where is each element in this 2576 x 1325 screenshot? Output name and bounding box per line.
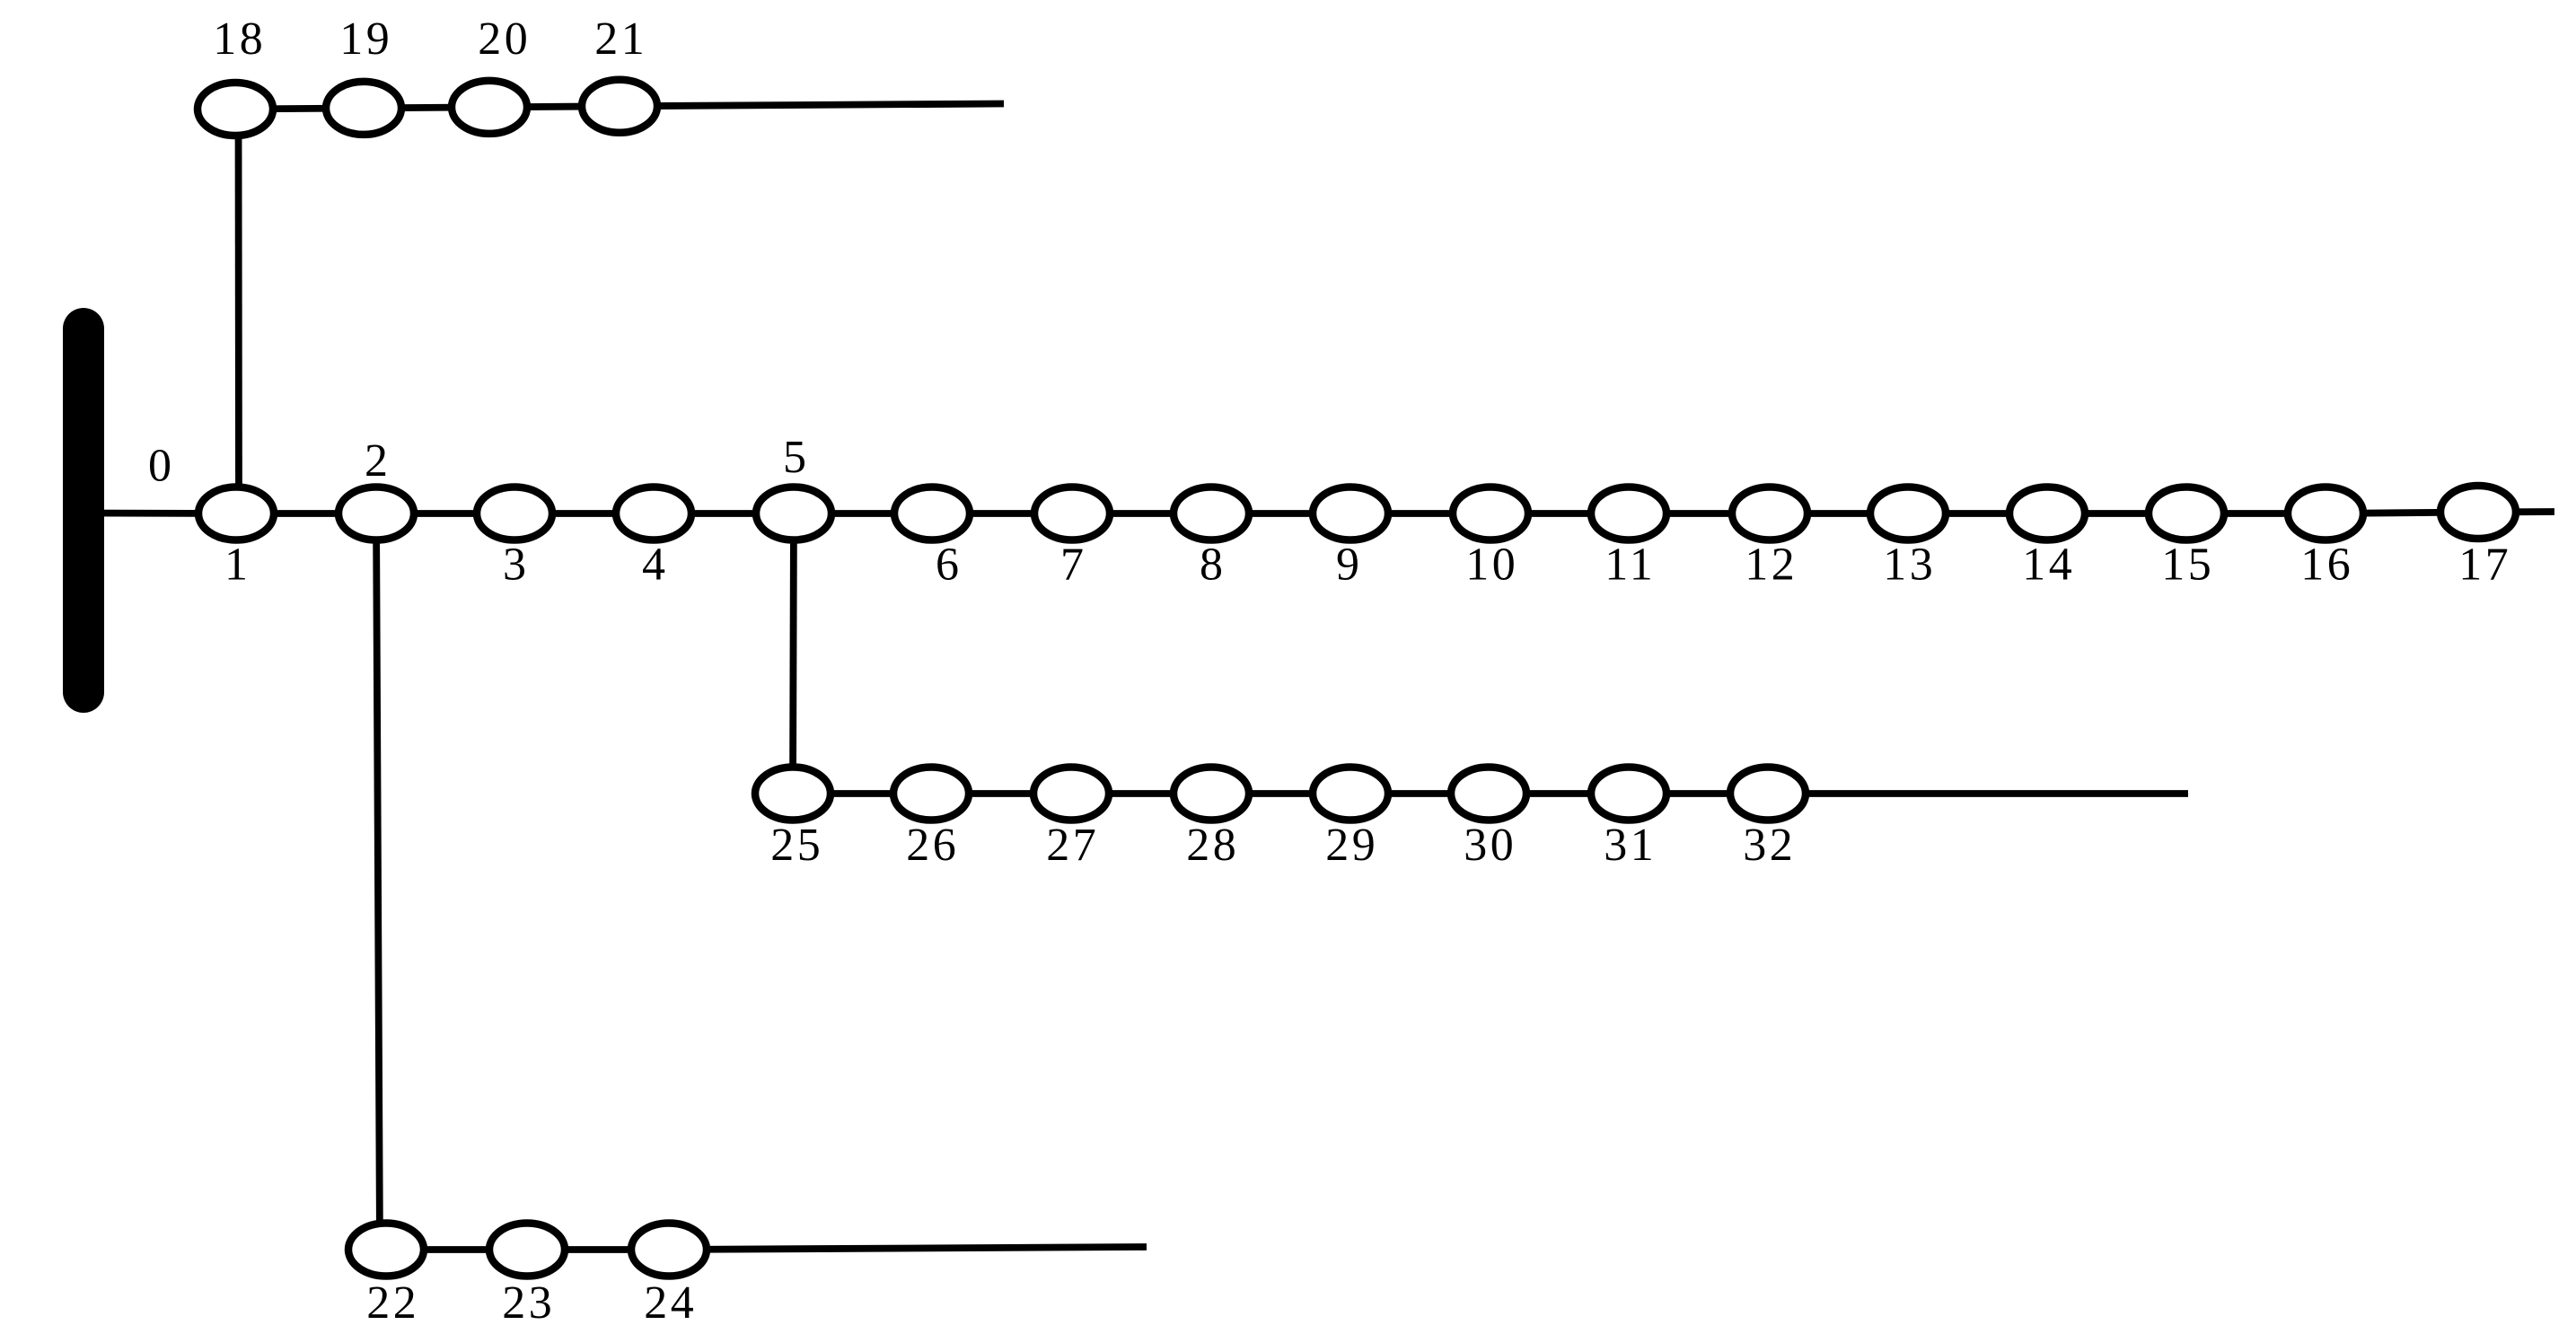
wire: edge 29-30 bbox=[1350, 790, 1489, 797]
wire: edge 26-27 bbox=[931, 790, 1071, 797]
wire: edge 18-19 bbox=[235, 108, 364, 109]
bus node 28 bbox=[1174, 768, 1249, 820]
svg-text:20: 20 bbox=[478, 13, 531, 65]
bus node 29 bbox=[1313, 768, 1388, 820]
wire: edge 5-6 bbox=[794, 510, 932, 517]
bus node 21 bbox=[582, 80, 657, 133]
wire: edge 3-4 bbox=[514, 510, 654, 517]
svg-text:16: 16 bbox=[2300, 540, 2353, 591]
svg-text:12: 12 bbox=[1745, 540, 1798, 591]
wire: edge 22-23 bbox=[386, 1246, 527, 1253]
wire: edge 6-7 bbox=[932, 510, 1072, 517]
svg-text:29: 29 bbox=[1325, 820, 1378, 871]
wire: edge 5-25 bbox=[793, 513, 794, 794]
bus node 16 bbox=[2288, 487, 2363, 540]
bus node 27 bbox=[1033, 768, 1109, 820]
wire: edge 23-24 bbox=[527, 1246, 669, 1253]
svg-text:22: 22 bbox=[366, 1277, 419, 1325]
bus node 22 bbox=[348, 1224, 424, 1277]
bus node 31 bbox=[1591, 768, 1666, 820]
bus node 17 bbox=[2440, 486, 2516, 539]
svg-text:9: 9 bbox=[1336, 540, 1363, 591]
bus node 3 bbox=[477, 487, 552, 540]
svg-text:2: 2 bbox=[365, 435, 391, 487]
wire: edge 2-3 bbox=[376, 510, 514, 517]
svg-text:6: 6 bbox=[936, 540, 963, 591]
svg-text:7: 7 bbox=[1060, 540, 1087, 591]
svg-text:13: 13 bbox=[1883, 540, 1936, 591]
svg-text:28: 28 bbox=[1186, 820, 1239, 871]
svg-text:18: 18 bbox=[213, 13, 266, 65]
svg-text:5: 5 bbox=[783, 432, 810, 483]
bus node 10 bbox=[1453, 487, 1528, 540]
svg-text:10: 10 bbox=[1465, 540, 1518, 591]
wire: edge 20-21 bbox=[489, 106, 620, 107]
svg-text:0: 0 bbox=[148, 441, 175, 492]
wire: edge 11-12 bbox=[1629, 510, 1770, 517]
bus node 30 bbox=[1451, 768, 1526, 820]
bus node 4 bbox=[616, 487, 691, 540]
wire: edge 1-18 bbox=[235, 110, 242, 514]
wire: edge 28-29 bbox=[1211, 790, 1350, 797]
bus node 24 bbox=[631, 1224, 707, 1277]
wire: edge 31-32 bbox=[1629, 790, 1768, 797]
wire: edge 7-8 bbox=[1072, 510, 1211, 517]
wire: edge 30-31 bbox=[1489, 790, 1629, 797]
svg-text:1: 1 bbox=[224, 540, 251, 591]
bus node 25 bbox=[755, 768, 831, 820]
svg-text:11: 11 bbox=[1605, 540, 1656, 591]
bus node 11 bbox=[1591, 487, 1666, 540]
svg-text:27: 27 bbox=[1046, 820, 1099, 871]
bus node 18 bbox=[198, 83, 273, 136]
bus node 19 bbox=[326, 82, 401, 135]
bus node 14 bbox=[2009, 487, 2085, 540]
wire: edge 10-11 bbox=[1490, 510, 1629, 517]
wire: edge stub after 24 bbox=[669, 1247, 1147, 1250]
wire: edge stub after 32 bbox=[1768, 790, 2188, 797]
svg-text:30: 30 bbox=[1464, 820, 1517, 871]
wire: edge 0-1 (substation feeder) bbox=[84, 510, 236, 517]
svg-text:21: 21 bbox=[594, 13, 647, 65]
bus node 12 bbox=[1732, 487, 1807, 540]
wire: edge 12-13 bbox=[1770, 510, 1908, 517]
svg-text:4: 4 bbox=[642, 540, 669, 591]
svg-text:14: 14 bbox=[2022, 540, 2075, 591]
bus node 1 bbox=[198, 487, 274, 540]
svg-text:32: 32 bbox=[1743, 820, 1796, 871]
svg-text:25: 25 bbox=[770, 820, 823, 871]
wire: edge 4-5 bbox=[654, 510, 794, 517]
bus node 2 bbox=[338, 487, 414, 540]
wire: edge 27-28 bbox=[1071, 790, 1211, 797]
bus node 23 bbox=[489, 1224, 565, 1277]
svg-text:24: 24 bbox=[644, 1277, 697, 1325]
svg-text:3: 3 bbox=[503, 540, 530, 591]
wire: edge 25-26 bbox=[793, 790, 931, 797]
svg-text:19: 19 bbox=[339, 13, 392, 65]
bus node 20 bbox=[452, 81, 527, 134]
wire: edge 8-9 bbox=[1211, 510, 1350, 517]
svg-text:17: 17 bbox=[2458, 540, 2511, 591]
svg-text:26: 26 bbox=[906, 820, 959, 871]
bus node 26 bbox=[893, 768, 969, 820]
bus node 9 bbox=[1313, 487, 1388, 540]
bus node 13 bbox=[1870, 487, 1946, 540]
bus node 6 bbox=[894, 487, 970, 540]
wire: edge stub after 17 bbox=[2478, 508, 2554, 515]
wire: edge 9-10 bbox=[1350, 510, 1490, 517]
wire: edge stub after 21 bbox=[620, 104, 1004, 107]
bus node 7 bbox=[1034, 487, 1110, 540]
wire: edge 19-20 bbox=[364, 107, 489, 108]
bus node 5 bbox=[756, 487, 831, 540]
wire: edge 1-2 bbox=[236, 510, 376, 517]
bus node 15 bbox=[2149, 487, 2224, 540]
wire: edge 14-15 bbox=[2047, 510, 2186, 517]
wire: edge 15-16 bbox=[2186, 510, 2325, 517]
bus node 8 bbox=[1174, 487, 1249, 540]
svg-text:31: 31 bbox=[1604, 820, 1657, 871]
bus node 32 bbox=[1730, 768, 1806, 820]
svg-text:8: 8 bbox=[1200, 540, 1226, 591]
wire: edge 2-22 bbox=[376, 513, 380, 1250]
wire: edge 16-17 bbox=[2325, 513, 2478, 514]
svg-text:15: 15 bbox=[2161, 540, 2214, 591]
svg-text:23: 23 bbox=[502, 1277, 555, 1325]
wire: edge 13-14 bbox=[1908, 510, 2047, 517]
substation bus bar (node 0) bbox=[63, 329, 104, 692]
